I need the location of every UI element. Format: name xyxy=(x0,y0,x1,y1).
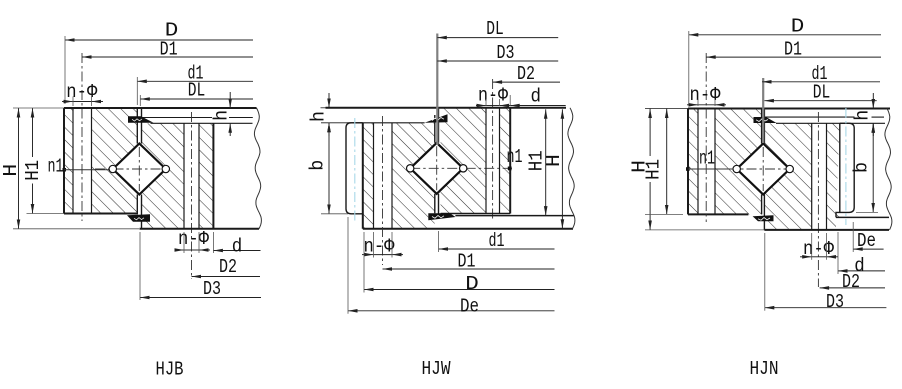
svg-text:b: b xyxy=(307,160,329,171)
HJN bottom seal wedge xyxy=(753,215,774,221)
HJW outer bolt centerline xyxy=(382,116,384,265)
HJW dim d line xyxy=(510,105,566,107)
HJN dim d1 line xyxy=(762,81,880,83)
HJB inner ring hatched body xyxy=(142,123,214,229)
HJW outer ring hatched body xyxy=(363,123,435,229)
HJB dim D2 line xyxy=(192,276,261,278)
HJB dim D line xyxy=(65,39,253,41)
HJN dim D ext xyxy=(688,31,690,104)
HJB outer ring hatched body xyxy=(64,108,138,214)
HJB dim n-Phi bottom line xyxy=(175,249,184,251)
HJB outer ring bolt line b xyxy=(91,108,93,214)
HJW inner ring bottom edge xyxy=(441,213,511,215)
HJW dim n-Phi bottom line xyxy=(362,254,374,256)
HJB dim D1 line xyxy=(82,56,253,58)
HJN dim D3 line xyxy=(765,307,887,309)
HJW dim n-Phi top line xyxy=(476,105,486,107)
HJN inner ring bolt hole strip xyxy=(812,123,827,230)
svg-text:n-Φ: n-Φ xyxy=(66,81,98,103)
HJN outer ring bolt hole strip xyxy=(698,109,715,215)
HJB inner ring bottom edge xyxy=(140,228,260,230)
HJB channel line left lower xyxy=(136,195,138,214)
HJN top surface line xyxy=(645,108,688,110)
HJB inner ring bolt line a xyxy=(183,123,185,229)
HJN dim n-Phi bottom exts xyxy=(811,233,813,260)
HJN dim n-Phi top line xyxy=(687,104,698,106)
HJW dim d1 line xyxy=(439,248,555,250)
HJN dim h arrows xyxy=(872,93,874,109)
HJN inner ring bore edge xyxy=(839,123,841,212)
svg-text:HJN: HJN xyxy=(750,358,779,380)
HJB dim n-Phi top exts xyxy=(72,97,74,107)
svg-text:b: b xyxy=(850,162,872,173)
HJB channel line left upper xyxy=(136,108,138,144)
HJW dim H line xyxy=(561,109,563,228)
HJN dim d1 gray ext xyxy=(762,78,764,143)
HJN ring gap channel upper xyxy=(762,109,765,145)
HJW dim b exts xyxy=(321,213,348,215)
HJW dim n-Phi top exts xyxy=(485,99,487,106)
svg-text:n-Φ: n-Φ xyxy=(364,235,396,257)
HJW ring gap channel upper xyxy=(435,123,439,144)
HJB dim n-Phi top line xyxy=(62,101,73,103)
HJW plug hole circle right xyxy=(460,165,467,172)
HJN seat column centerline cyan xyxy=(845,108,847,225)
HJN flange seal land line xyxy=(764,116,854,118)
HJW dim DL line xyxy=(437,37,558,39)
HJN plug hole circle right xyxy=(786,165,793,172)
svg-text:D: D xyxy=(791,16,805,38)
HJW dim H1 line xyxy=(545,109,547,215)
HJN seat column outline xyxy=(836,123,854,217)
svg-text:n-Φ: n-Φ xyxy=(178,228,210,250)
HJB dim d1 ext xyxy=(136,77,138,105)
HJB bottom seal wedge xyxy=(127,214,150,222)
HJB top surface line xyxy=(64,107,257,109)
HJB plug hole circle right xyxy=(162,165,169,172)
HJW bottom plate top line xyxy=(455,215,574,217)
HJN outer ring left edge xyxy=(687,109,689,215)
svg-text:n1: n1 xyxy=(48,155,64,177)
HJN dim H1 line xyxy=(666,109,668,215)
HJW inner ring bolt hole strip xyxy=(486,108,500,214)
svg-text:De: De xyxy=(857,230,876,252)
svg-text:n1: n1 xyxy=(507,146,523,168)
HJW dim De line xyxy=(348,310,555,312)
HJB outer ring bolt line a xyxy=(72,108,74,214)
svg-text:D1: D1 xyxy=(784,39,802,61)
svg-text:DL: DL xyxy=(813,82,831,104)
HJW dim D1 line xyxy=(383,268,555,270)
HJN dim H exts xyxy=(645,213,683,215)
svg-text:D3: D3 xyxy=(203,278,221,300)
HJW plate bottom line xyxy=(321,122,348,124)
HJB dim d ext xyxy=(212,232,214,253)
HJW ring gap channel lower xyxy=(435,193,439,229)
HJB dim DL line xyxy=(140,98,253,100)
HJW plate top left ext xyxy=(321,107,334,109)
HJN dim DL line xyxy=(764,100,876,102)
HJN outer ring bottom edge xyxy=(688,213,748,215)
HJW dim n-Phi bottom exts xyxy=(373,232,375,258)
svg-text:d: d xyxy=(232,236,243,258)
HJB ring gap channel lower xyxy=(137,194,141,214)
HJB dim DL ext xyxy=(139,95,141,106)
HJW plug hole circle left xyxy=(407,165,414,172)
HJW dim D ext xyxy=(363,232,365,293)
svg-text:d: d xyxy=(531,86,542,108)
HJN dim n-Phi top exts xyxy=(697,99,699,106)
HJB dim h arrows xyxy=(229,92,231,108)
svg-text:n-Φ: n-Φ xyxy=(690,84,722,106)
HJB roller horizontal centerline xyxy=(95,168,166,170)
svg-text:DL: DL xyxy=(486,18,504,40)
HJN inner ring bolt line a xyxy=(811,123,813,230)
HJN dim D1 line xyxy=(706,56,881,58)
HJN outer bolt centerline xyxy=(705,53,707,222)
HJW seat column centerline cyan xyxy=(354,118,356,223)
HJB inner bolt centerline xyxy=(191,112,193,279)
HJN dim n-Phi bottom line xyxy=(800,256,812,258)
HJN channel line left lower xyxy=(761,195,763,215)
HJW outer ring bolt hole strip xyxy=(374,123,393,229)
HJW inner ring bolt line a xyxy=(485,108,487,214)
HJN outer ring hatched body xyxy=(688,109,762,215)
HJW dim De ext xyxy=(347,217,349,314)
HJW roller vertical centerline xyxy=(436,146,438,190)
svg-text:D1: D1 xyxy=(160,39,178,61)
HJW inner ring bore edge xyxy=(509,108,511,214)
HJW dim h arrows xyxy=(328,93,330,108)
HJW bottom seal wedge xyxy=(428,213,455,220)
svg-text:h: h xyxy=(210,110,232,121)
svg-text:H1: H1 xyxy=(643,159,665,180)
svg-text:n-Φ: n-Φ xyxy=(478,85,509,107)
HJB outer ring left edge xyxy=(63,108,65,214)
HJN dim D line xyxy=(689,34,881,36)
HJW roller diamond xyxy=(410,143,463,194)
HJB dim H1 line xyxy=(32,108,34,157)
HJW dim D2 line xyxy=(493,81,560,83)
HJB n1 leader xyxy=(63,168,67,172)
HJB dim D ext xyxy=(64,36,66,104)
HJN channel line left upper xyxy=(761,109,763,144)
HJN dim d line xyxy=(838,270,885,272)
svg-text:D: D xyxy=(465,273,479,295)
HJB roller vertical centerline xyxy=(138,147,140,191)
svg-text:D3: D3 xyxy=(826,291,844,313)
HJW seat column outline xyxy=(346,123,363,214)
HJW dim D line xyxy=(364,289,555,291)
HJW channel line left upper xyxy=(434,115,436,143)
HJN roller diamond xyxy=(737,144,790,195)
HJW channel line right lower xyxy=(438,194,440,216)
HJB break line wavy xyxy=(254,108,261,229)
HJW dim DL D3 gray ext xyxy=(436,34,438,146)
HJW channel line right upper xyxy=(438,108,440,143)
HJN channel line right upper xyxy=(763,109,765,144)
HJN flange bottom line xyxy=(776,122,885,124)
HJN outer ring bolt line b xyxy=(714,109,716,215)
HJB outer ring bottom edge xyxy=(64,213,138,215)
HJN n1 leader xyxy=(686,167,690,171)
HJB inner ring bolt line b xyxy=(198,123,200,229)
HJN outer ring bolt line a xyxy=(697,109,699,215)
HJB dim D3 ext xyxy=(139,232,141,300)
svg-text:D3: D3 xyxy=(497,42,515,64)
svg-text:D1: D1 xyxy=(458,251,476,273)
HJN ring gap channel lower xyxy=(762,194,765,215)
svg-text:H: H xyxy=(543,154,565,167)
HJN top seal wedge xyxy=(754,117,777,123)
HJB dim d line xyxy=(213,250,260,252)
HJN dim D2 line xyxy=(820,287,885,289)
HJN dim De line xyxy=(853,248,883,250)
svg-text:n1: n1 xyxy=(699,147,715,169)
HJN inner ring bolt line b xyxy=(826,123,828,230)
HJW channel line left lower xyxy=(434,194,436,214)
svg-text:d1: d1 xyxy=(489,230,505,252)
HJN dim b line xyxy=(872,123,874,212)
HJW outer ring left edge xyxy=(362,123,364,229)
HJB dim H exts xyxy=(13,107,64,109)
HJB top seal wedge xyxy=(128,116,154,123)
HJW outer ring bolt line b xyxy=(391,123,393,229)
HJW n1 square xyxy=(508,167,512,171)
HJB roller diamond xyxy=(113,144,166,195)
HJW inner ring hatched body xyxy=(441,108,511,214)
HJW outer ring bottom edge xyxy=(363,228,573,230)
HJB flange bottom line xyxy=(151,122,253,124)
HJW top surface line xyxy=(326,107,567,109)
HJN dim De ext xyxy=(852,222,854,252)
svg-text:HJB: HJB xyxy=(156,359,184,381)
HJN dim D3 ext xyxy=(764,233,766,311)
HJN dim b exts xyxy=(856,211,878,213)
HJB flange seal land line xyxy=(142,117,213,119)
HJN dim H line xyxy=(649,109,651,157)
HJN channel line right lower xyxy=(763,195,765,230)
HJB dim d1 line xyxy=(137,80,253,82)
HJB channel line right upper xyxy=(141,108,143,144)
HJN roller vertical centerline xyxy=(762,147,764,191)
HJB inner ring bolt hole strip xyxy=(184,123,199,229)
HJB plug hole circle left xyxy=(109,165,116,172)
HJN inner ring plate notch white xyxy=(836,217,842,230)
HJN inner ring bottom edge xyxy=(764,229,889,231)
HJW inner bolt centerline xyxy=(492,79,494,219)
svg-text:De: De xyxy=(460,295,479,317)
svg-text:H1: H1 xyxy=(22,160,44,181)
HJW dim D3 line xyxy=(437,60,558,62)
svg-text:DL: DL xyxy=(188,80,206,102)
svg-text:D2: D2 xyxy=(219,256,237,278)
svg-text:h: h xyxy=(851,110,873,121)
HJW dim d ext xyxy=(509,95,511,106)
HJN roller horizontal centerline xyxy=(691,168,790,170)
HJW outer ring bolt line a xyxy=(373,123,375,229)
HJW break line wavy xyxy=(568,108,575,229)
HJW dim b line xyxy=(328,123,330,214)
HJW top seal wedge xyxy=(425,114,448,123)
HJN dim d ext xyxy=(837,232,839,274)
HJW roller horizontal centerline xyxy=(410,167,512,169)
svg-text:H: H xyxy=(0,164,22,177)
HJB outer bolt centerline xyxy=(81,53,83,221)
svg-text:D2: D2 xyxy=(842,271,860,293)
HJB inner ring bore edge xyxy=(212,123,214,229)
HJW inner ring bolt line b xyxy=(499,108,501,214)
HJN inner ring hatched body xyxy=(764,123,839,230)
HJN bottom plate top line xyxy=(836,216,889,218)
HJB channel line right lower xyxy=(141,195,143,229)
HJB outer ring bolt hole strip xyxy=(73,108,92,214)
HJB dim D3 line xyxy=(140,297,261,299)
svg-text:D2: D2 xyxy=(517,63,535,85)
HJN inner bolt centerline xyxy=(817,112,819,287)
HJW dim d1 ext xyxy=(438,231,440,252)
HJB ring gap channel upper xyxy=(137,108,141,145)
HJN plug hole circle left xyxy=(733,165,740,172)
svg-text:h: h xyxy=(308,111,330,122)
HJN break line wavy xyxy=(885,109,892,230)
HJB dim H line xyxy=(18,108,20,229)
HJB dim n-Phi bottom exts xyxy=(183,232,185,253)
svg-text:HJW: HJW xyxy=(422,358,451,380)
